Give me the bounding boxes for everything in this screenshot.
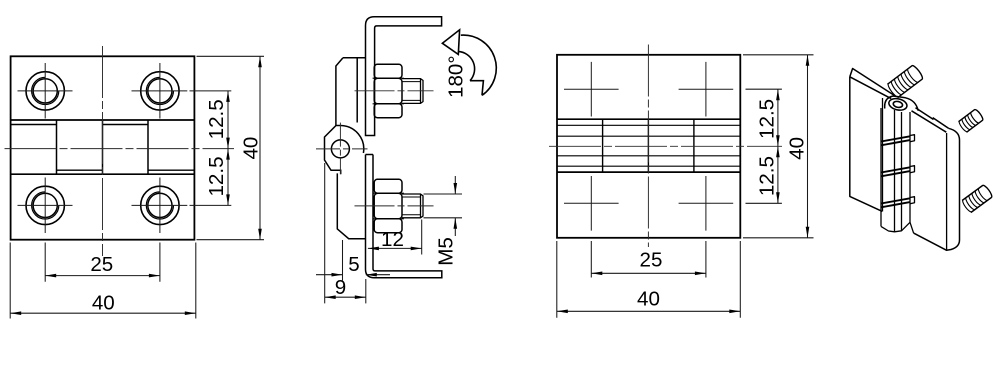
svg-text:180°: 180° bbox=[445, 55, 468, 98]
svg-text:12.5: 12.5 bbox=[755, 99, 778, 139]
svg-text:40: 40 bbox=[785, 137, 808, 160]
svg-text:40: 40 bbox=[92, 292, 115, 315]
svg-text:12.5: 12.5 bbox=[205, 156, 228, 196]
svg-text:40: 40 bbox=[637, 288, 660, 311]
svg-text:5: 5 bbox=[348, 253, 359, 276]
svg-text:25: 25 bbox=[90, 253, 113, 276]
svg-text:M5: M5 bbox=[435, 237, 458, 266]
svg-text:25: 25 bbox=[640, 249, 663, 272]
svg-text:9: 9 bbox=[335, 276, 346, 299]
svg-text:12.5: 12.5 bbox=[205, 99, 228, 139]
svg-text:12: 12 bbox=[381, 228, 404, 251]
svg-text:40: 40 bbox=[240, 137, 263, 160]
svg-text:12.5: 12.5 bbox=[755, 156, 778, 196]
